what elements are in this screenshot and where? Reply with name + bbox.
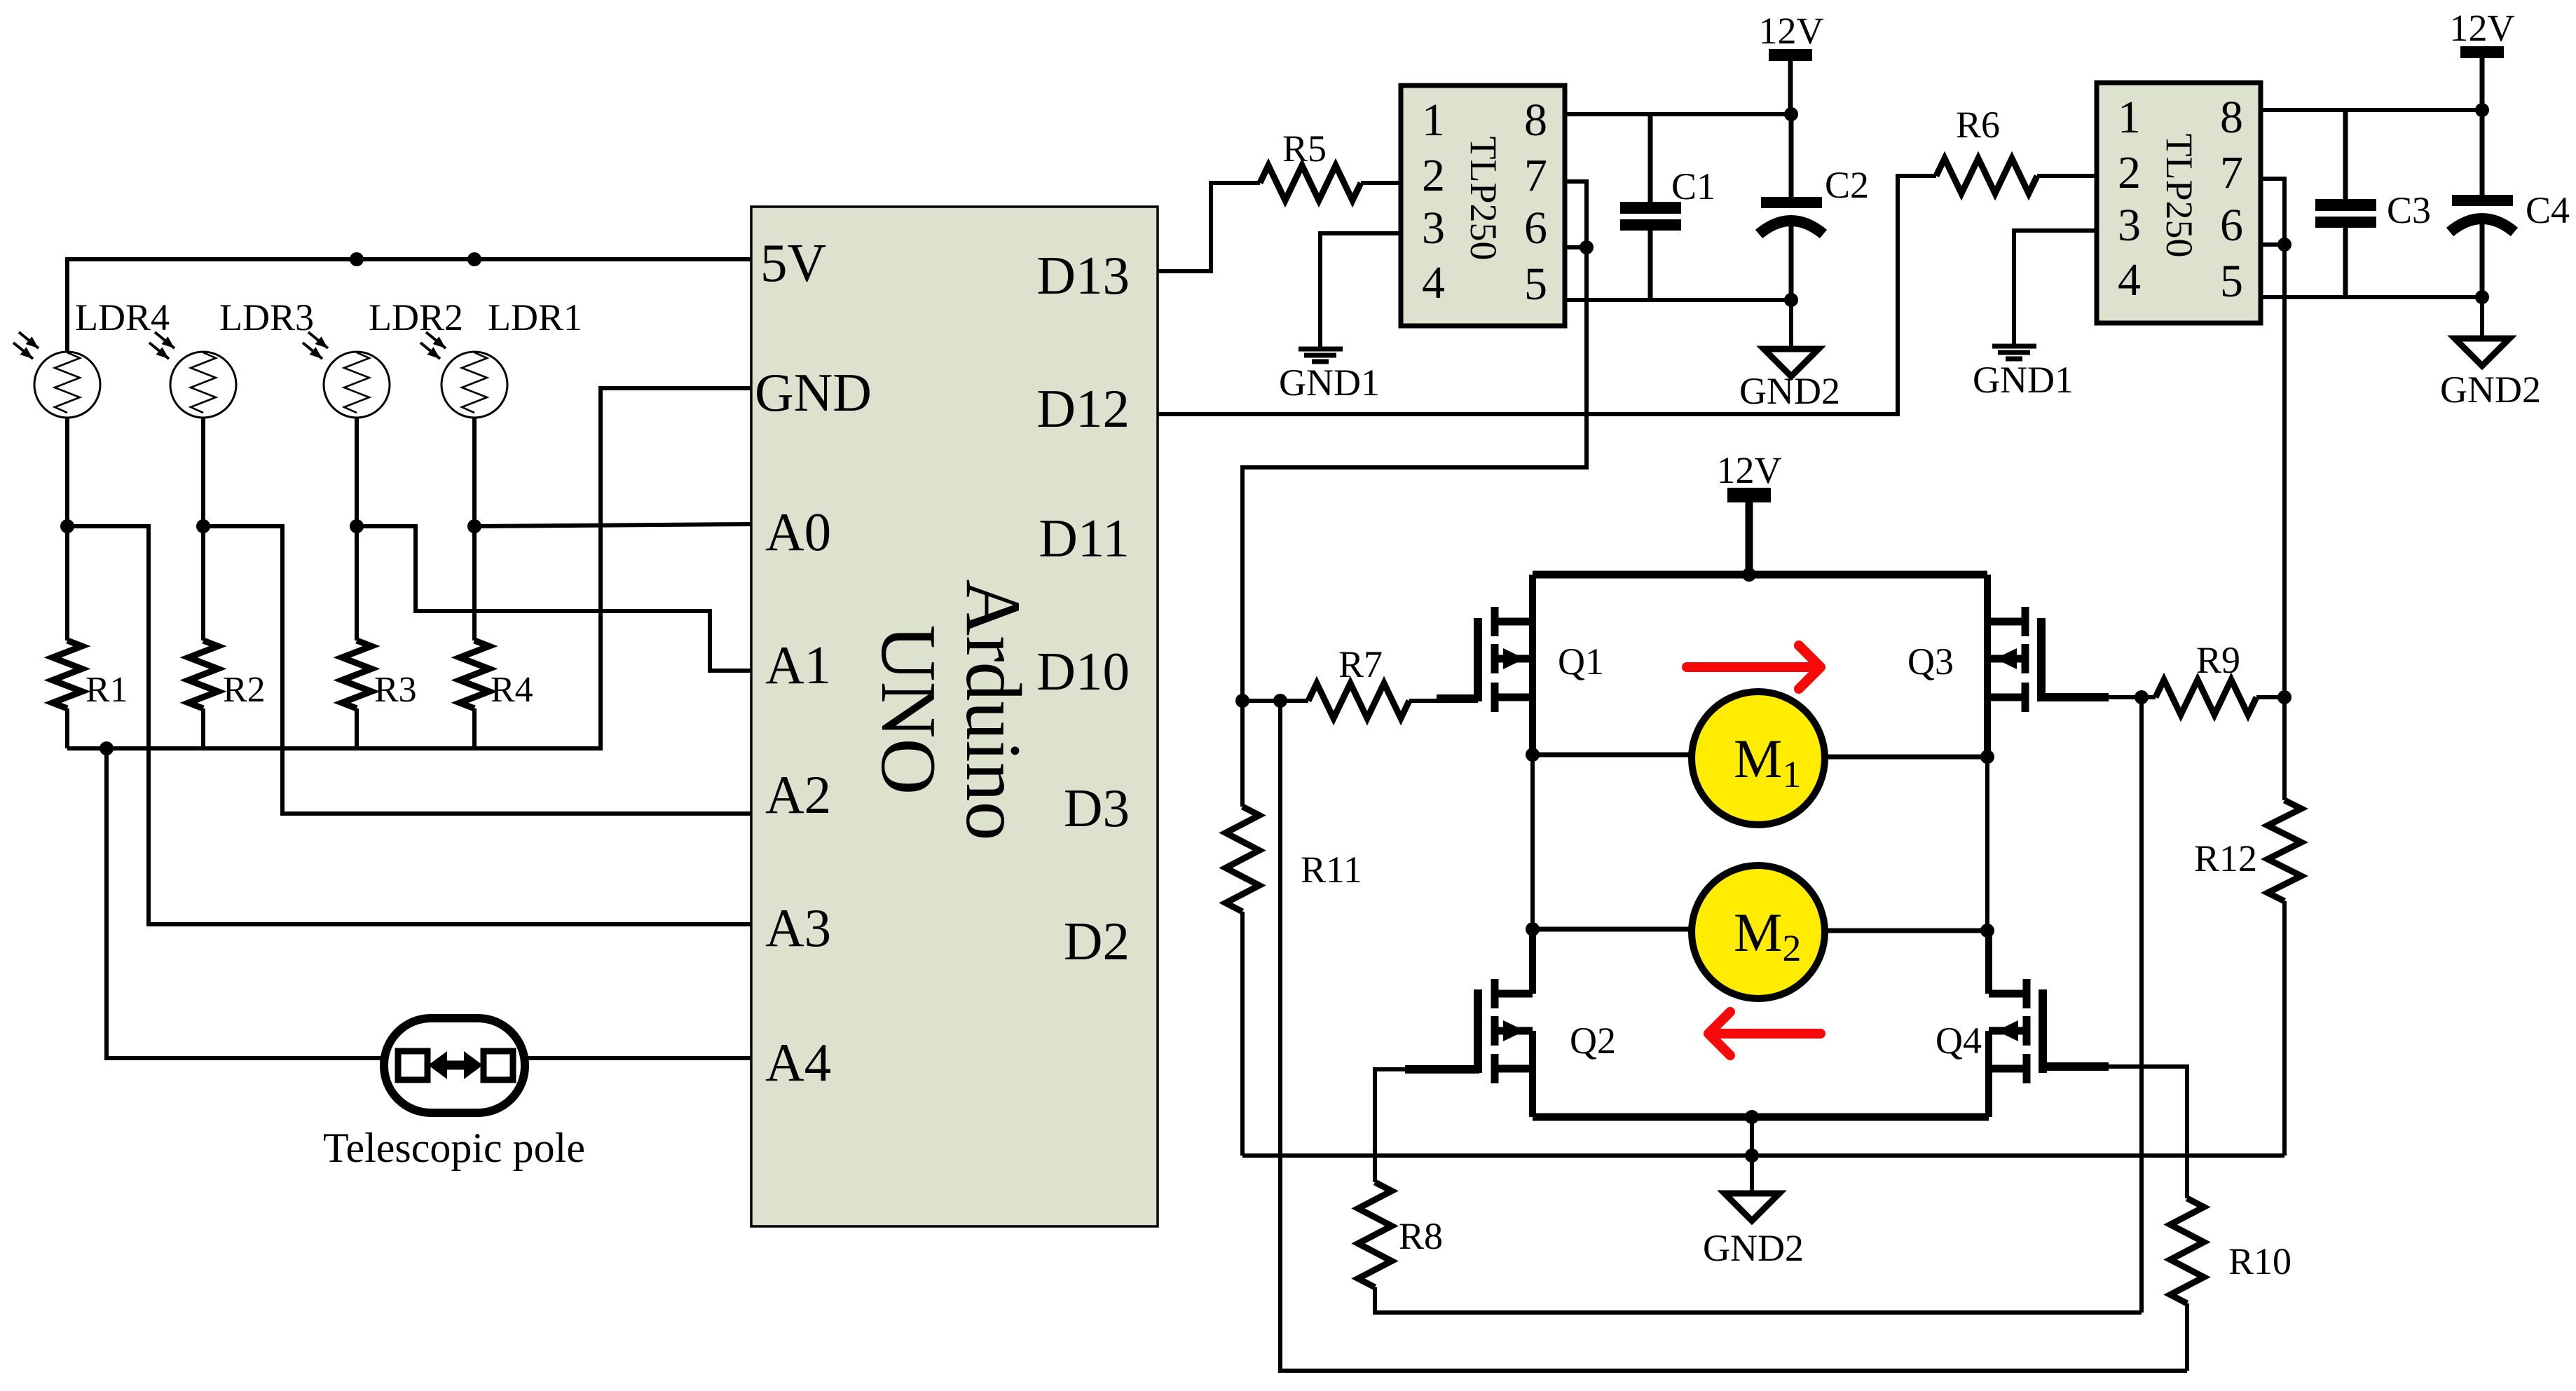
wire U3 pin7 to output node [2261,179,2284,697]
svg-text:D10: D10 [1036,641,1130,701]
junction dot gate branch Q4 [1273,694,1287,708]
transistor Q2 MOSFET [1478,929,1533,1117]
wire A2 from LDR3 [203,526,751,814]
svg-text:Q3: Q3 [1907,640,1954,683]
ground GND2 H-bridge [1725,1156,1779,1221]
wire LDR3 to junction [201,418,205,526]
junction dot 5V rail LDR2 [350,252,364,266]
svg-text:A0: A0 [765,502,831,562]
svg-text:GND2: GND2 [1739,370,1840,412]
wire D12 to R6 [1158,176,1936,414]
svg-text:7: 7 [2220,147,2243,198]
junction dot M1 left [1526,748,1540,762]
wire Q3 gate to R9 [2041,693,2109,701]
ground GND2 for U2 [1764,300,1818,376]
H-bridge bottom rail wire [1533,1114,1989,1121]
svg-text:LDR3: LDR3 [219,296,314,338]
12V top rail wire [1533,571,1987,579]
svg-text:Q2: Q2 [1570,1020,1616,1062]
svg-text:1: 1 [1422,95,1445,146]
junction dot 5V rail LDR1 [467,252,481,266]
power 12V supply for U3 [2460,46,2504,110]
resistor R8 [1358,1182,1392,1287]
junction dot LDR3 divider [196,519,210,533]
svg-text:D13: D13 [1036,245,1130,306]
capacitor C2 polarized [1759,114,1823,300]
wire Q4 gate to R10 [2043,1062,2109,1071]
transistor Q4 MOSFET [1989,931,2043,1117]
resistor R10 [2170,1198,2204,1303]
svg-text:R10: R10 [2228,1240,2291,1282]
junction dot 12V top rail [1742,568,1756,582]
svg-text:A1: A1 [765,635,831,695]
wire U2 pin3 to GND1 [1320,233,1401,347]
svg-text:D2: D2 [1064,911,1130,971]
photoresistor LDR2 [303,332,390,418]
wire U2 pin7 to output node [1242,181,1587,701]
ground GND2 for U3 [2455,297,2509,366]
svg-text:R12: R12 [2194,837,2257,879]
wire U2 pin6 tie [1565,245,1587,249]
photoresistor LDR4 [13,332,100,418]
svg-text:R4: R4 [491,670,533,710]
junction dot TLP2 output [2277,690,2291,704]
wire M2 left [1533,927,1694,932]
wire A3 from LDR4 [67,526,751,924]
wire R7 to Q1 gate [1409,699,1437,703]
svg-text:2: 2 [1422,150,1445,201]
junction dot LDR1 divider [467,519,481,533]
resistor R5 [1260,165,1361,200]
svg-text:C3: C3 [2387,189,2431,231]
power 12V supply H-bridge [1727,488,1771,575]
svg-text:R1: R1 [85,670,128,710]
junction dot GND2 U3 [2475,290,2489,304]
5V rail wire [67,259,751,352]
svg-text:R8: R8 [1399,1215,1443,1257]
svg-text:R2: R2 [223,670,266,710]
optocoupler U2 TLP250 body [1401,85,1565,326]
wire LDR2 to junction [355,418,359,526]
wire U3 pin8 to 12V node [2261,108,2482,112]
svg-text:5: 5 [1524,259,1547,310]
svg-text:TLP250: TLP250 [1462,136,1505,260]
wire U3 pin5 to GND2 node [2261,295,2482,299]
capacitor C4 polarized [2450,110,2514,297]
wire bottom rail to GND2 rail [1750,1117,1754,1156]
wire A0 from LDR1 [474,524,751,526]
wire R9 to TLP2 output node [2256,695,2284,699]
wire U3 pin6 tie [2261,242,2284,247]
resistor R3 [355,526,359,640]
ground GND1 left [1299,349,1343,362]
resistor R1 [65,526,69,640]
wire M2 right [1823,929,1987,933]
junction dot TLP1 output [1235,694,1249,708]
junction dot bottom rail GND2 tap [1745,1110,1759,1124]
junction dot GND rail to A4 branch [100,741,114,755]
svg-text:8: 8 [2220,92,2243,143]
svg-text:GND1: GND1 [1279,362,1380,404]
wire M1 right [1823,755,1987,760]
svg-text:6: 6 [1524,203,1547,254]
svg-text:A3: A3 [765,898,831,958]
svg-text:C2: C2 [1825,164,1869,206]
wire D13 to R5 [1158,183,1260,271]
resistor R12 [2282,697,2287,800]
motor M1 [1692,692,1825,825]
svg-text:GND2: GND2 [1703,1227,1804,1269]
junction dot 12V U3 [2475,103,2489,117]
junction dot M2 left [1526,922,1540,936]
ground GND1 right [1992,346,2036,359]
photoresistor LDR1 [420,332,507,418]
svg-text:R9: R9 [2196,639,2240,681]
wire M1 left [1533,753,1694,758]
svg-text:LDR1: LDR1 [488,296,582,338]
transistor Q3 MOSFET [1987,575,2041,754]
svg-text:R3: R3 [374,670,417,710]
junction dot U2 pins 6-7 [1580,240,1594,254]
telescopic pole sensor [384,1018,525,1113]
wire LDR1 to junction [472,418,477,526]
svg-text:UNO: UNO [865,625,952,795]
svg-text:GND2: GND2 [2440,369,2541,411]
wire U2 pin5 to GND2 node [1565,298,1791,302]
svg-text:2: 2 [2118,147,2141,198]
wire TLP1 output node to R7 [1242,699,1308,703]
junction dot Q3 gate node [2135,690,2149,704]
svg-text:12V: 12V [1717,449,1782,491]
resistor R9 [2156,680,2256,715]
wire A4 from telescopic pole [107,748,384,1058]
power 12V supply for U2 [1769,49,1812,114]
svg-text:3: 3 [1422,203,1445,254]
svg-text:Arduino: Arduino [950,579,1036,840]
svg-text:6: 6 [2220,200,2243,251]
junction dot 12V U2 [1784,107,1798,121]
svg-text:TLP250: TLP250 [2158,133,2200,257]
wire M1 node to M2 node right [1985,757,1989,931]
wire M1 node to M2 node left [1530,755,1535,929]
transistor Q1 MOSFET [1478,575,1533,754]
GND bottom rail wire [67,388,751,748]
junction dot LDR2 divider [350,519,364,533]
svg-text:Q4: Q4 [1936,1020,1982,1062]
junction dot GND2 rail [1745,1149,1759,1163]
wire A1 from LDR2 [357,526,751,671]
svg-text:D3: D3 [1064,778,1130,838]
svg-text:R11: R11 [1301,849,1362,891]
resistor R7 [1308,683,1409,718]
optocoupler U3 TLP250 body [2097,83,2261,323]
svg-text:R7: R7 [1338,643,1383,685]
wire LDR4 to junction [65,418,69,526]
red arrow current direction M2 [1708,1012,1821,1055]
svg-text:12V: 12V [1759,10,1824,52]
photoresistor LDR3 [149,332,236,418]
junction dot U3 pins 6-7 [2277,238,2291,252]
junction dot M2 right [1980,924,1994,938]
svg-text:GND: GND [755,362,872,423]
svg-text:7: 7 [1524,150,1547,201]
svg-text:R6: R6 [1956,104,2000,146]
wire Q2 gate to R8 [1405,1065,1479,1074]
svg-text:4: 4 [2118,254,2141,306]
red arrow current direction M1 [1687,645,1821,689]
resistor R6 [1936,158,2037,193]
resistor R11 [1240,701,1245,807]
capacitor C1 [1620,114,1681,300]
svg-text:R5: R5 [1282,128,1327,170]
svg-text:4: 4 [1422,257,1445,308]
svg-text:Telescopic pole: Telescopic pole [323,1125,585,1171]
svg-text:3: 3 [2118,200,2141,251]
wire gate branch to R10 bottom [1280,701,2187,1371]
junction dot GND2 U2 [1784,293,1798,307]
svg-text:LDR2: LDR2 [369,296,463,338]
motor M2 [1692,865,1825,999]
GND2 rail wire [1242,1153,2284,1158]
wire U2 pin8 to 12V node [1565,112,1791,116]
junction dot LDR4 divider [60,519,74,533]
svg-text:C1: C1 [1671,165,1715,207]
svg-text:5V: 5V [760,233,826,293]
svg-text:Q1: Q1 [1558,640,1604,683]
wire R8 to Q3 gate node [2139,697,2144,1313]
svg-text:A4: A4 [765,1032,831,1092]
svg-text:5: 5 [2220,256,2243,307]
svg-text:1: 1 [2118,92,2141,143]
svg-text:D12: D12 [1036,378,1130,439]
svg-text:C4: C4 [2526,189,2570,231]
resistor R2 [201,526,205,640]
resistor R4 [472,526,477,640]
svg-text:8: 8 [1524,95,1547,146]
wire U3 pin3 to GND1 [2014,231,2097,344]
Arduino UNO U1 body [751,207,1158,1226]
svg-text:GND1: GND1 [1973,359,2074,401]
capacitor C3 [2315,110,2376,297]
junction dot M1 right [1980,750,1994,764]
svg-text:12V: 12V [2450,7,2515,49]
svg-text:D11: D11 [1039,508,1130,568]
svg-text:A2: A2 [765,765,831,825]
